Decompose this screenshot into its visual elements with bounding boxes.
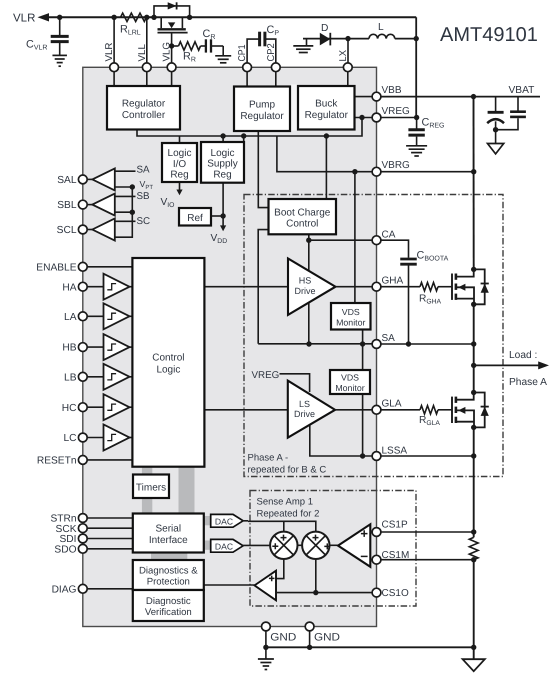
junction VPT node	[130, 184, 135, 189]
wire GND pins to ground bus	[266, 631, 310, 647]
ground at anode of diode D	[293, 39, 313, 53]
wire LSSA pin to rail	[381, 455, 474, 457]
wire Logic Supply Reg to VDD	[222, 183, 224, 226]
wire boot charge to CA node	[308, 234, 310, 344]
label CVLR	[26, 39, 47, 52]
wire SA output	[115, 170, 136, 172]
schmitt buffer LC	[104, 425, 133, 451]
svg-text:VBB: VBB	[382, 85, 402, 96]
wire ENABLE to Control Logic	[87, 266, 132, 268]
wire Control Logic to LS Drive	[204, 409, 287, 411]
wire fault comparator output	[204, 584, 255, 586]
junction CA node	[306, 238, 311, 243]
label Load :	[509, 350, 537, 361]
wire rail below low side FET	[473, 428, 475, 538]
svg-text:Regulator: Regulator	[240, 111, 284, 122]
wire bus to Boot Charge Control	[325, 136, 327, 199]
dash-dot boundary Phase A - repeated for B and C	[244, 195, 503, 477]
svg-text:CA: CA	[382, 230, 396, 241]
gap band between Pump and Buck regulators	[291, 85, 297, 131]
block Diagnostics and Protection	[133, 560, 204, 590]
label Sense Amp 1	[257, 497, 314, 508]
ground below CVLR	[52, 55, 66, 66]
wire rail between FETs	[473, 304, 475, 392]
comparator SCL	[92, 219, 115, 241]
wire SCL pin to comparator	[87, 229, 92, 231]
resistor RGHA	[420, 283, 438, 291]
VLR arrow	[38, 13, 50, 21]
junction buck output corner	[414, 36, 419, 41]
wire RESETn to Control Logic	[87, 459, 132, 461]
svg-text:LA: LA	[64, 312, 77, 323]
wire STRn to Serial Interface	[87, 517, 133, 519]
capacitor CR	[172, 39, 224, 55]
label L	[378, 22, 384, 33]
junction bottom ground wire	[471, 645, 476, 650]
wire VDS riser from VBRG node	[354, 172, 356, 303]
block Boot Charge Control	[269, 199, 337, 234]
pin LC	[63, 433, 87, 444]
wire SAL pin to comparator	[87, 178, 92, 180]
block Pump Regulator	[234, 87, 290, 132]
comparator SBL	[92, 194, 115, 216]
wire DAC2 to mixer 1	[243, 544, 270, 546]
junction CS1M on rail	[471, 557, 476, 562]
bus bar Serial Interface to DAC 1	[204, 516, 211, 525]
label VDD	[211, 233, 228, 245]
junction bus / Logic Supply riser	[220, 133, 225, 142]
svg-text:LX: LX	[338, 50, 349, 62]
junction VBRG rail	[471, 169, 476, 174]
wire DIAG to Diagnostics	[87, 588, 133, 590]
svg-text:HA: HA	[62, 282, 76, 293]
wire HS Drive to GHA	[336, 286, 373, 288]
svg-text:Logic: Logic	[156, 365, 180, 376]
svg-text:Timers: Timers	[136, 483, 166, 494]
svg-text:Reg: Reg	[213, 169, 231, 180]
wire SCL lower output to VPT bus	[115, 187, 133, 237]
wire amp minus to CS1M	[370, 559, 372, 561]
label SC	[137, 216, 151, 227]
svg-text:Pump: Pump	[249, 99, 276, 110]
wire SCK to Serial Interface	[87, 527, 133, 529]
wire V IO arrow below Logic IO Reg	[176, 182, 182, 195]
wire caps to chassis ground	[495, 130, 497, 144]
svg-text:SC: SC	[137, 216, 151, 227]
svg-text:Monitor: Monitor	[335, 383, 364, 393]
junction SA / HS drive source	[306, 341, 311, 346]
op-amp HS Drive	[288, 259, 336, 315]
bus bar Control Logic to Timers	[142, 467, 152, 475]
pin SDO	[54, 544, 87, 555]
pin VBRG	[372, 160, 410, 176]
schmitt buffer HA	[104, 274, 133, 300]
pin CP2	[266, 43, 280, 71]
junction top rail / pass FET source	[151, 15, 156, 20]
wire inductor to buck output corner	[395, 38, 416, 40]
wire top rail down to VREG node	[415, 17, 417, 117]
block Timers	[133, 475, 169, 499]
pin GLA	[372, 398, 402, 414]
pin SCK	[56, 524, 88, 535]
junction VBB rail	[471, 94, 476, 99]
power MOSFET low side phase A	[452, 390, 489, 430]
label Phase A load	[509, 377, 547, 388]
wire VBB to VBAT	[381, 96, 540, 98]
wire HB pin to buffer	[87, 346, 104, 348]
junction Load takeoff	[471, 363, 476, 368]
wire mixer2 to CS1O	[315, 559, 317, 593]
pin VLR	[104, 42, 118, 71]
inductor L	[369, 34, 395, 38]
pin RESETn	[37, 456, 87, 467]
comparator SAL	[92, 168, 115, 190]
wire VDS Monitor 1 to SA	[362, 330, 364, 345]
dash-dot boundary Sense Amp 1 Repeated for 2	[250, 491, 416, 607]
svg-text:Drive: Drive	[294, 286, 315, 296]
wire CA to bootstrap cap	[381, 240, 409, 258]
wire VREG from Buck Regulator	[355, 117, 373, 119]
wire pin stubs into Regulator Controller	[114, 72, 172, 86]
junction top rail / CVLR	[57, 15, 62, 20]
ground below CR	[215, 56, 231, 63]
junction CBOOTA to SA	[406, 341, 411, 346]
svg-text:VBAT: VBAT	[509, 85, 535, 96]
svg-text:Logic: Logic	[168, 148, 192, 159]
svg-text:CP2: CP2	[266, 43, 277, 61]
wire SB output	[115, 195, 136, 197]
wire VLR pin stub	[113, 17, 115, 63]
capacitor CREG	[408, 118, 424, 146]
VDD arrowhead	[220, 225, 226, 231]
svg-text:SAL: SAL	[57, 175, 77, 186]
chassis ground triangle at VBAT	[488, 144, 504, 154]
svg-text:Diagnostics &: Diagnostics &	[139, 566, 198, 577]
wire SA pin to rail	[381, 343, 474, 345]
svg-text:Ref: Ref	[187, 213, 203, 224]
svg-text:HB: HB	[62, 343, 76, 354]
block Ref	[179, 208, 211, 226]
pin SCL	[57, 225, 88, 236]
DAC 2	[211, 539, 243, 552]
label HS Drive	[294, 276, 315, 296]
power MOSFET high side phase A	[452, 267, 489, 307]
label Phase A repeated	[248, 453, 327, 476]
label RR	[183, 51, 196, 64]
svg-text:RESETn: RESETn	[37, 456, 77, 467]
svg-text:VLR: VLR	[13, 13, 35, 25]
svg-text:LS: LS	[299, 399, 310, 409]
label RGLA	[419, 415, 440, 427]
wire RGLA to gate	[438, 409, 452, 411]
resistor RLRL	[121, 13, 147, 21]
svg-text:CS1M: CS1M	[382, 550, 410, 561]
pin HA	[62, 282, 87, 293]
svg-text:GND: GND	[314, 632, 340, 644]
wire mixer2 to amp	[330, 544, 339, 546]
junction bus / Logic IO riser	[179, 136, 181, 143]
svg-text:DIAG: DIAG	[52, 584, 77, 595]
wire CS1M to rail	[381, 559, 474, 561]
wire RGHA to gate	[438, 286, 452, 288]
svg-text:VREG: VREG	[252, 370, 280, 381]
svg-text:LC: LC	[63, 433, 76, 444]
junction VLG gate / RR	[169, 43, 174, 48]
pin VREG	[372, 106, 410, 122]
schmitt buffer HC	[104, 394, 133, 420]
bus bar Serial Interface to DAC 2	[204, 541, 211, 550]
svg-text:Controller: Controller	[122, 110, 166, 121]
label Repeated for 2	[257, 509, 320, 520]
svg-text:Reg: Reg	[170, 170, 188, 181]
block Logic Supply Reg	[201, 142, 244, 183]
wire Control Logic to HS Drive	[204, 286, 288, 288]
pin GHA	[372, 276, 403, 291]
fault comparator to diagnostics	[255, 571, 277, 601]
wire mixer1 to mixer2	[298, 544, 303, 546]
label D	[321, 23, 328, 34]
svg-text:Control: Control	[286, 219, 318, 230]
junction SA on rail	[471, 341, 476, 346]
junction LX node	[345, 36, 350, 41]
junction top rail / VLR pin	[111, 15, 116, 20]
svg-text:Phase A: Phase A	[509, 377, 547, 388]
junction CS1O mixer2	[313, 590, 318, 595]
svg-text:SCL: SCL	[57, 225, 77, 236]
wire body diode loop of pass FET	[154, 6, 190, 17]
svg-text:VLL: VLL	[137, 44, 148, 62]
pin DIAG	[52, 584, 88, 595]
wire LS drive source to LSSA	[310, 425, 380, 456]
pin SDI	[60, 534, 88, 545]
pass FET Q VLG	[158, 17, 188, 63]
block Serial Interface	[133, 514, 204, 553]
label CREG	[422, 117, 445, 130]
ground below CREG	[406, 146, 427, 156]
label VLR net	[13, 13, 35, 25]
svg-text:Logic: Logic	[211, 148, 235, 159]
svg-text:Diagnostic: Diagnostic	[146, 596, 191, 607]
svg-text:Verification: Verification	[145, 607, 192, 618]
Load arrowhead	[538, 361, 549, 369]
svg-text:SA: SA	[137, 164, 151, 175]
chassis ground triangle bottom right	[463, 659, 485, 671]
svg-text:GHA: GHA	[382, 276, 404, 287]
IC AMT49101 body outline	[83, 67, 377, 626]
svg-text:Load :: Load :	[509, 350, 537, 361]
pin LSSA	[372, 446, 407, 461]
wire pump to boot charge supply	[258, 130, 268, 208]
svg-text:VLR: VLR	[104, 42, 115, 61]
svg-text:Interface: Interface	[149, 535, 188, 546]
wire SC output	[115, 220, 136, 222]
junction VBAT caps to ground	[493, 127, 498, 132]
wire Ref to VDD node	[211, 215, 223, 217]
wire VBRG to power rail	[381, 171, 474, 173]
wire internal supply bus	[137, 118, 362, 137]
wire CA pin to boot node	[309, 239, 372, 241]
wire LX pin stub	[347, 39, 349, 64]
svg-text:Repeated for 2: Repeated for 2	[257, 509, 320, 520]
block Logic IO Reg	[162, 143, 197, 182]
capacitor CVLR	[51, 17, 69, 55]
DAC 1	[211, 514, 243, 527]
wire SA line from boot reference	[258, 343, 380, 345]
svg-text:DAC: DAC	[215, 516, 233, 526]
junction LSSA on rail	[471, 453, 476, 458]
junction VPT SBL	[130, 210, 135, 215]
wire LX pin stub into Buck Regulator	[347, 72, 349, 86]
wire SA to VDS Monitor 2 to LSSA	[362, 344, 364, 456]
svg-text:Sense Amp 1: Sense Amp 1	[257, 497, 314, 508]
svg-text:CP1: CP1	[237, 44, 248, 61]
svg-text:L: L	[378, 22, 384, 33]
junction VBRG internal	[352, 169, 357, 174]
label LS Drive	[294, 399, 315, 419]
junction top rail / pass FET drain	[187, 15, 192, 20]
junction VREG / internal bus riser	[359, 115, 364, 120]
junction SA / VDS1	[360, 341, 365, 346]
svg-text:Regulator: Regulator	[305, 110, 349, 121]
wire Load arrow	[474, 364, 541, 366]
pin CS1M	[372, 550, 409, 564]
pin HB	[62, 343, 87, 354]
diode across pass FET	[168, 2, 177, 9]
svg-text:HS: HS	[299, 276, 312, 286]
svg-text:Phase A -: Phase A -	[248, 453, 289, 464]
pin STRn	[50, 514, 87, 525]
bus bar Control Logic to Serial Interface	[179, 467, 195, 514]
ground symbol bottom	[258, 647, 274, 669]
wire SBL pin to comparator	[87, 204, 92, 206]
svg-text:Supply: Supply	[207, 159, 238, 170]
pin VLL	[137, 44, 151, 72]
svg-text:DAC: DAC	[215, 541, 233, 551]
wire SBL lower output to VPT bus	[115, 211, 133, 213]
label VIO	[161, 197, 175, 209]
label CBOOTA	[417, 250, 449, 263]
wire GHA gate drive	[381, 286, 420, 288]
block Control Logic	[132, 258, 204, 467]
label CR	[203, 28, 216, 41]
junction top rail / VLL pin	[144, 15, 149, 20]
label VPT	[140, 179, 154, 191]
sense amp output stage	[338, 524, 370, 567]
svg-text:SA: SA	[382, 333, 396, 344]
pin HC	[62, 403, 87, 414]
junction GND2 bus	[307, 645, 312, 650]
wire SDO to Serial Interface	[87, 548, 133, 550]
svg-text:repeated for B & C: repeated for B & C	[248, 465, 327, 476]
wire GLA gate drive	[381, 409, 420, 411]
label DAC 1	[215, 516, 233, 526]
diode D	[320, 33, 331, 46]
wire mixer1 to fault comparator	[276, 559, 284, 579]
label CP	[267, 24, 280, 37]
pin CS1P	[372, 520, 408, 537]
block VDS Monitor 2	[330, 370, 370, 394]
wire CS1O line	[276, 592, 372, 594]
svg-text:HC: HC	[62, 403, 77, 414]
schmitt buffer LB	[104, 364, 133, 390]
wire amp plus to CS1P	[370, 531, 372, 533]
wire VBB from Buck Regulator	[355, 96, 373, 98]
svg-text:LSSA: LSSA	[382, 446, 408, 457]
pin VBB	[372, 85, 402, 101]
svg-text:ENABLE: ENABLE	[36, 262, 76, 273]
wire SAL lower output to VPT bus	[115, 186, 133, 188]
label SA	[137, 164, 151, 175]
label RLRL	[120, 24, 141, 37]
mixer circle 1	[270, 532, 297, 559]
capacitor CP	[247, 32, 276, 64]
wire SDI to Serial Interface	[87, 538, 133, 540]
svg-text:VREG: VREG	[382, 106, 411, 117]
pin CP1	[237, 44, 251, 72]
junction GND1 bus	[263, 645, 268, 650]
pin LA	[64, 312, 87, 323]
pin SAL	[57, 175, 87, 186]
svg-text:I/O: I/O	[173, 159, 187, 170]
svg-text:Drive: Drive	[294, 409, 315, 419]
wire LS Drive to GLA	[335, 409, 372, 411]
pin LB	[64, 372, 87, 383]
svg-text:SDO: SDO	[54, 544, 76, 555]
svg-text:GND: GND	[270, 632, 296, 644]
pin CS1O	[372, 588, 409, 599]
svg-text:Boot Charge: Boot Charge	[274, 207, 331, 218]
wire VBB power rail down right side	[473, 97, 475, 270]
resistor RR	[179, 42, 201, 50]
wire VLR top rail	[44, 16, 416, 18]
wire LB pin to buffer	[87, 376, 104, 378]
capacitor CBOOTA	[400, 259, 417, 344]
label VBAT	[509, 85, 535, 96]
pin SA	[372, 333, 395, 348]
mixer circle 2	[302, 532, 330, 559]
bus bar Timers to Serial Interface	[142, 498, 152, 514]
pin CA	[372, 230, 396, 245]
label SB	[137, 191, 151, 202]
svg-text:AMT49101: AMT49101	[440, 24, 538, 46]
svg-text:Monitor: Monitor	[336, 317, 365, 327]
junction CS1P on rail	[471, 529, 476, 534]
wire VREG to LS Drive	[280, 374, 310, 392]
svg-text:CS1P: CS1P	[382, 520, 408, 531]
svg-text:VLG: VLG	[162, 42, 173, 62]
block Buck Regulator	[298, 86, 355, 130]
bulk capacitor polarized at VBAT	[487, 97, 504, 130]
block Diagnostic Verification	[133, 590, 204, 621]
wire bottom ground bus	[266, 646, 474, 648]
svg-text:Protection: Protection	[147, 577, 190, 588]
svg-text:Control: Control	[152, 353, 184, 364]
ceramic capacitor at VBAT	[496, 97, 526, 130]
wire HC pin to buffer	[87, 406, 104, 408]
svg-text:LB: LB	[64, 372, 77, 383]
junction bus / Logic Supply corner stub	[241, 133, 246, 142]
svg-text:VBRG: VBRG	[382, 160, 411, 171]
svg-text:CS1O: CS1O	[382, 588, 409, 599]
sense resistor	[469, 537, 478, 559]
svg-text:Serial: Serial	[156, 524, 182, 535]
pin GND 1	[262, 622, 297, 643]
svg-text:VDS: VDS	[342, 307, 360, 317]
wire pin stubs into Pump Regulator	[247, 72, 276, 87]
wire boot charge SA reference	[258, 230, 268, 344]
pin LX	[338, 50, 352, 72]
svg-text:SB: SB	[137, 191, 151, 202]
